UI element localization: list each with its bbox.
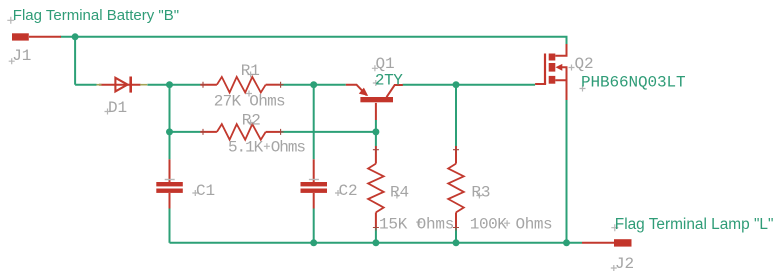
svg-text:Flag Terminal Lamp "L": Flag Terminal Lamp "L"	[615, 216, 774, 233]
svg-text:15K Ohms: 15K Ohms	[379, 216, 454, 234]
svg-text:C1: C1	[196, 182, 215, 200]
svg-text:R4: R4	[390, 184, 409, 202]
svg-text:J1: J1	[12, 47, 31, 65]
svg-text:J2: J2	[615, 255, 634, 273]
svg-text:Flag Terminal Battery "B": Flag Terminal Battery "B"	[13, 7, 179, 24]
svg-text:PHB66NQ03LT: PHB66NQ03LT	[581, 73, 686, 91]
svg-text:27K Ohms: 27K Ohms	[214, 93, 285, 111]
svg-text:C2: C2	[339, 182, 358, 200]
svg-text:2TY: 2TY	[375, 72, 403, 90]
svg-text:100K Ohms: 100K Ohms	[470, 216, 552, 234]
svg-text:R3: R3	[471, 184, 490, 202]
svg-text:Q2: Q2	[575, 55, 594, 73]
svg-text:5.1K Ohms: 5.1K Ohms	[228, 139, 305, 157]
svg-text:R1: R1	[241, 62, 260, 80]
svg-text:R2: R2	[242, 112, 261, 130]
svg-text:Q1: Q1	[376, 55, 395, 73]
svg-text:D1: D1	[108, 99, 127, 117]
